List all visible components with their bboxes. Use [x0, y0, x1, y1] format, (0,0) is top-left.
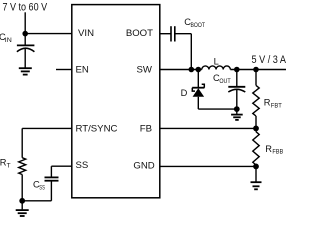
- svg-text:7 V to 60 V: 7 V to 60 V: [3, 1, 48, 13]
- label COUT: [213, 73, 231, 85]
- wire SW: [160, 69, 202, 71]
- wire EN stub: [56, 69, 72, 71]
- svg-text:L: L: [214, 56, 219, 66]
- node GND junction: [254, 164, 258, 168]
- node RT/CSS junction: [20, 199, 24, 203]
- svg-text:BOOT: BOOT: [191, 22, 206, 29]
- capacitor CIN: [17, 34, 35, 68]
- svg-text:EN: EN: [76, 64, 89, 75]
- wire bottom rail to CSS: [22, 200, 51, 202]
- label CBOOT: [184, 17, 205, 29]
- svg-text:FB: FB: [140, 123, 152, 134]
- svg-text:5 V / 3 A: 5 V / 3 A: [252, 54, 287, 66]
- svg-text:IN: IN: [5, 37, 12, 44]
- node L/COUT junction: [235, 67, 239, 71]
- node COUT/ground junction: [235, 107, 239, 111]
- svg-text:SW: SW: [137, 64, 153, 75]
- ground COUT: [231, 109, 243, 120]
- node output/RFBT junction: [254, 67, 258, 71]
- svg-text:RT/SYNC: RT/SYNC: [76, 123, 118, 134]
- wire output: [230, 69, 286, 71]
- svg-text:SS: SS: [39, 184, 45, 191]
- node VIN junction: [23, 31, 27, 35]
- wire BOOT: [160, 33, 171, 35]
- svg-text:R: R: [265, 144, 272, 154]
- wire RT vertical lead: [21, 128, 23, 157]
- ground CIN: [19, 68, 32, 74]
- svg-text:GND: GND: [133, 160, 154, 171]
- resistor RT: [19, 158, 26, 175]
- wire CBOOT to SW node: [175, 33, 192, 35]
- wire RT bottom lead: [21, 175, 23, 201]
- wire SS: [51, 165, 71, 167]
- wire FB: [160, 127, 256, 129]
- label RT: [0, 158, 11, 170]
- node SW/diode junction: [196, 67, 200, 71]
- capacitor CSS: [45, 166, 59, 201]
- svg-text:T: T: [7, 162, 11, 169]
- svg-text:VIN: VIN: [78, 28, 94, 39]
- label CSS: [33, 180, 45, 192]
- label RFBT: [264, 98, 282, 110]
- svg-text:BOOT: BOOT: [126, 28, 153, 39]
- inductor L: [202, 66, 231, 70]
- svg-text:OUT: OUT: [219, 78, 230, 85]
- resistor RFBB: [253, 128, 259, 166]
- svg-text:FBT: FBT: [271, 102, 282, 109]
- svg-text:SS: SS: [76, 160, 89, 171]
- node SW/CBOOT junction: [189, 67, 193, 71]
- capacitor CBOOT: [171, 26, 175, 41]
- ground RFBB: [251, 166, 262, 189]
- wire RT/SYNC: [22, 127, 72, 129]
- wire VIN: [25, 33, 72, 35]
- wire diode to COUT ground rail: [198, 108, 237, 110]
- label RFBB: [265, 144, 283, 156]
- resistor RFBT: [253, 70, 259, 129]
- svg-text:FBB: FBB: [272, 149, 283, 156]
- svg-text:R: R: [264, 98, 271, 108]
- node FB junction: [254, 126, 258, 130]
- IC U1 buck regulator body: [72, 5, 160, 198]
- diode D Schottky: [192, 70, 204, 110]
- svg-text:D: D: [181, 88, 188, 98]
- label CIN: [0, 32, 12, 44]
- wire GND: [160, 165, 256, 167]
- ground bottom-left: [16, 201, 29, 216]
- wire input vertical: [24, 12, 26, 33]
- capacitor COUT: [228, 70, 245, 110]
